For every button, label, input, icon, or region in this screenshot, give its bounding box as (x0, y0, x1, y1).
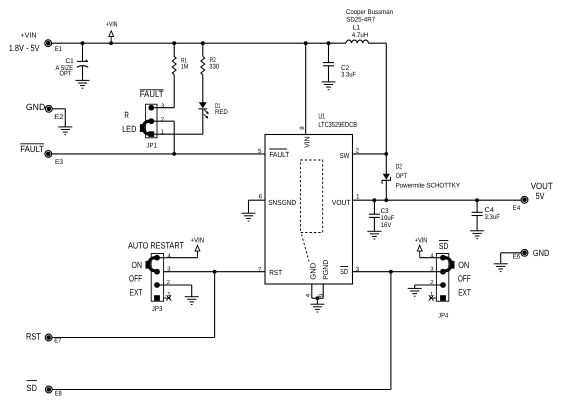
connector JP4 (430, 253, 449, 319)
capacitor C4 (472, 200, 500, 231)
svg-text:GND: GND (533, 248, 550, 258)
connector JP3 (151, 253, 171, 313)
node label SD (above JP4) (439, 241, 449, 252)
svg-text:VIN: VIN (303, 136, 312, 148)
svg-text:SNSGND: SNSGND (268, 198, 296, 207)
svg-text:+VIN: +VIN (415, 235, 428, 244)
svg-text:2: 2 (356, 147, 360, 154)
svg-text:SD: SD (27, 383, 38, 393)
wire JP3 pin4 to +VIN (157, 257, 198, 259)
terminal E2 (GND) (26, 102, 64, 121)
svg-text:LED: LED (122, 124, 137, 134)
svg-text:4.7uH: 4.7uH (352, 32, 369, 39)
svg-text:330: 330 (209, 64, 219, 71)
node junction R1/rail (172, 41, 176, 45)
svg-text:GND: GND (26, 102, 46, 112)
svg-text:C3: C3 (381, 208, 389, 215)
svg-text:Powermite SCHOTTKY: Powermite SCHOTTKY (396, 183, 461, 190)
svg-text:E6: E6 (513, 253, 521, 260)
resistor R2 (201, 43, 219, 102)
ground (JP4) (408, 288, 422, 296)
power symbol +VIN (top) (106, 19, 118, 43)
svg-text:+VIN: +VIN (106, 19, 118, 28)
wire U1 GND/PGND pins to ground (312, 284, 323, 304)
terminal E6 (GND) (513, 248, 550, 260)
svg-text:R: R (124, 110, 129, 120)
no-connect X JP4 pin1 (429, 295, 437, 300)
diode D1 (LED, RED) (198, 102, 227, 134)
ground (E6) (494, 264, 508, 272)
node junction FAULT net (172, 152, 176, 156)
terminal E3 (FAULT) (20, 144, 63, 166)
svg-text:4: 4 (305, 293, 312, 297)
ground (E2) (58, 127, 72, 135)
terminal E4 (VOUT 5V) (513, 181, 553, 212)
power symbol +VIN (JP3) (191, 235, 205, 257)
svg-text:JP4: JP4 (438, 313, 448, 320)
svg-text:3: 3 (161, 102, 164, 109)
power symbol +VIN (JP4) (415, 235, 428, 257)
svg-text:ON: ON (132, 260, 143, 270)
node junction R2/rail (201, 41, 205, 45)
wire FAULT net (52, 153, 265, 155)
wire +VIN rail (52, 42, 387, 44)
capacitor C2 (323, 43, 356, 82)
capacitor C3 (369, 200, 395, 231)
svg-text:E2: E2 (54, 114, 63, 121)
svg-text:PGND: PGND (321, 260, 330, 280)
wire JP4 pin2 to ground (415, 285, 443, 288)
terminal E8 (SD) (27, 381, 62, 398)
ground (C1) (76, 80, 90, 88)
svg-text:SD: SD (340, 267, 348, 276)
svg-text:5V: 5V (536, 191, 545, 201)
wire LED to JP1 pin1 (151, 133, 203, 135)
node junction C2/rail (327, 41, 331, 45)
svg-text:E7: E7 (54, 338, 61, 345)
svg-text:LTC3529EDCB: LTC3529EDCB (318, 120, 357, 129)
svg-text:7: 7 (258, 267, 262, 274)
svg-text:EXT: EXT (130, 288, 143, 298)
jumper shunt JP4 (pins 3-4) (445, 258, 454, 271)
svg-text:EXT: EXT (458, 288, 471, 298)
svg-text:FAULT: FAULT (140, 89, 164, 99)
svg-text:OPT: OPT (396, 173, 408, 180)
ground (U1) (310, 304, 324, 312)
node junction SD (389, 270, 393, 274)
ground (C2) (322, 82, 336, 90)
svg-text:9: 9 (318, 293, 325, 297)
no-connect X JP3 pin1 (164, 295, 172, 300)
svg-text:SD: SD (439, 241, 449, 251)
svg-text:3.3uF: 3.3uF (341, 71, 356, 78)
svg-text:1M: 1M (181, 64, 189, 71)
svg-text:5: 5 (258, 148, 262, 155)
svg-text:RST: RST (26, 332, 41, 342)
svg-text:4: 4 (168, 253, 172, 259)
svg-text:6: 6 (259, 193, 263, 200)
wire JP1 pin3 to R1 (151, 107, 174, 109)
wire U1 VIN pin8 (305, 43, 307, 134)
node junction D2/VOUT (384, 198, 388, 202)
node junction C1/rail (81, 41, 85, 45)
svg-text:2: 2 (161, 116, 164, 123)
svg-text:E4: E4 (513, 205, 521, 212)
svg-text:E1: E1 (55, 46, 62, 53)
svg-text:Cooper Bussman: Cooper Bussman (346, 9, 393, 16)
svg-text:JP3: JP3 (152, 306, 163, 313)
jumper shunt JP3 (pins 3-4) (146, 258, 155, 271)
jumper shunt JP1 (pins 1-2) (140, 121, 149, 134)
svg-text:JP1: JP1 (147, 143, 158, 150)
node label FAULT (above JP1) (140, 89, 164, 99)
wire E2 to ground (52, 109, 65, 127)
svg-text:FAULT: FAULT (20, 144, 44, 154)
svg-text:ON: ON (458, 260, 469, 270)
svg-text:RST: RST (269, 268, 282, 277)
svg-text:+: + (84, 58, 88, 65)
svg-text:16V: 16V (381, 222, 392, 229)
svg-text:VOUT: VOUT (332, 198, 351, 207)
resistor R1 (172, 43, 188, 108)
svg-text:+VIN: +VIN (191, 235, 205, 244)
wire JP3 pin2 to ground (157, 285, 192, 297)
IC U1 LTC3529EDCB (258, 112, 360, 298)
node junction +VIN symbol/rail (109, 41, 113, 45)
svg-text:FAULT: FAULT (269, 150, 289, 159)
svg-text:E3: E3 (55, 159, 63, 166)
connector JP1 (146, 102, 165, 149)
svg-text:10uF: 10uF (381, 215, 395, 222)
node junction GND/PGND (316, 296, 320, 300)
svg-text:1.8V - 5V: 1.8V - 5V (9, 43, 40, 53)
capacitor C1 (56, 43, 89, 80)
wire E6 to ground (501, 253, 522, 264)
svg-text:OFF: OFF (458, 274, 471, 284)
wire JP4 pin4 to +VIN (420, 257, 443, 259)
svg-text:VOUT: VOUT (531, 181, 553, 191)
svg-text:E8: E8 (55, 391, 62, 398)
ground (C4) (470, 231, 484, 239)
ground (C3) (367, 231, 381, 239)
node junction C3/VOUT (373, 198, 377, 202)
ground (JP3) (185, 297, 199, 305)
wire JP1 pin2 to FAULT net (151, 121, 174, 154)
svg-text:GND: GND (309, 263, 318, 280)
svg-text:1: 1 (356, 194, 360, 201)
svg-text:OPT: OPT (60, 70, 72, 77)
wire VOUT net (353, 199, 522, 201)
svg-text:SD25-4R7: SD25-4R7 (346, 16, 375, 23)
svg-text:+VIN: +VIN (21, 31, 37, 40)
node +VIN input label (9, 31, 40, 53)
node junction U1 VIN/rail (304, 41, 308, 45)
svg-text:8: 8 (299, 126, 306, 130)
node junction RST (213, 270, 217, 274)
wire RST net (52, 272, 265, 338)
wire SD net (52, 272, 440, 390)
svg-text:3: 3 (167, 266, 170, 273)
inductor L1 (346, 9, 393, 43)
svg-text:OFF: OFF (129, 274, 143, 284)
terminal E7 (RST) (26, 332, 62, 345)
wire SNSGND pin6 to ground (249, 200, 266, 213)
svg-text:SW: SW (340, 151, 350, 160)
svg-text:4: 4 (430, 253, 434, 259)
svg-text:L1: L1 (353, 25, 361, 32)
diode D2 (Schottky) (382, 164, 460, 201)
wire SW net vertical (353, 43, 387, 174)
node junction SW (384, 152, 388, 156)
svg-text:3: 3 (430, 266, 433, 273)
svg-text:AUTO RESTART: AUTO RESTART (128, 240, 184, 250)
ground (SNSGND) (242, 213, 256, 221)
node junction C4/VOUT (475, 198, 479, 202)
svg-text:1: 1 (161, 129, 164, 135)
svg-text:D2: D2 (396, 164, 403, 171)
svg-text:RED: RED (215, 109, 228, 116)
svg-text:3.3uF: 3.3uF (485, 214, 500, 221)
terminal E1 (45, 40, 62, 53)
